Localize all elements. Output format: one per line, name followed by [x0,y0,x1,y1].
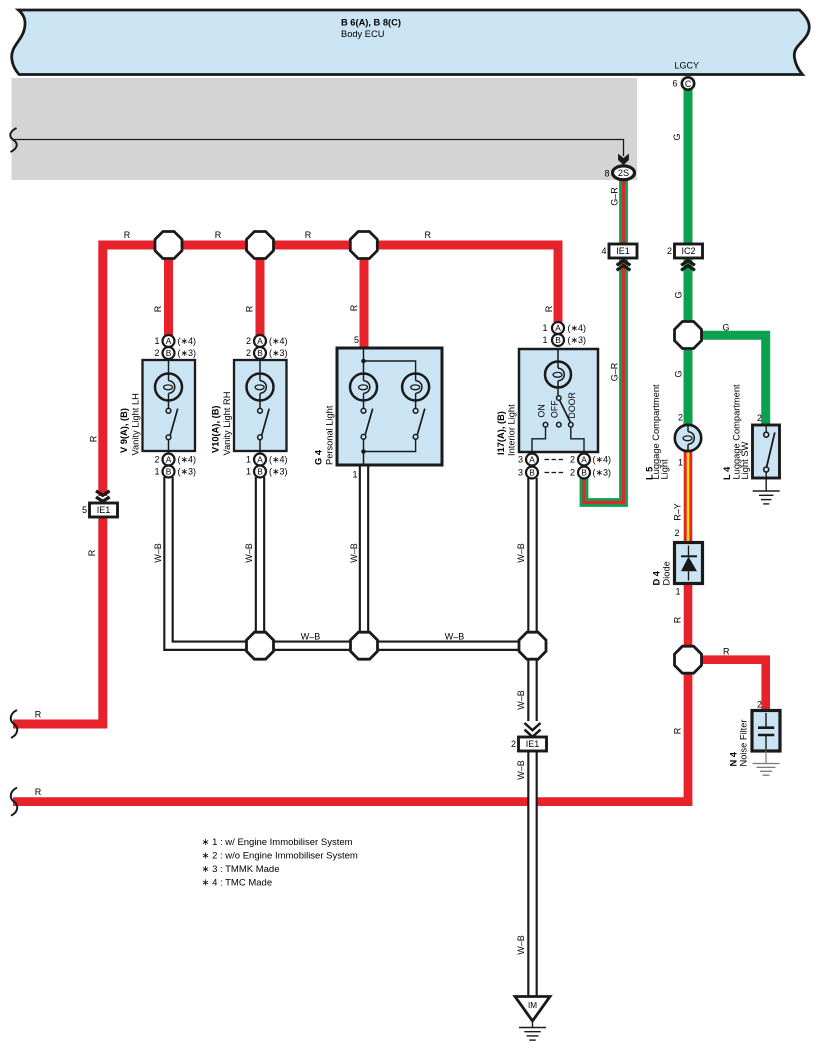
svg-text:Vanity Light RH: Vanity Light RH [222,392,232,456]
svg-text:OFF: OFF [549,400,559,418]
svg-text:2: 2 [757,700,762,710]
svg-text:Interior Light: Interior Light [507,404,517,456]
svg-text:R: R [215,230,222,240]
svg-text:R: R [89,435,99,442]
svg-text:2: 2 [511,739,516,749]
svg-text:Body ECU: Body ECU [341,29,384,39]
svg-text:W–B: W–B [349,543,359,563]
svg-text:(∗3): (∗3) [593,468,612,478]
svg-text:IE1: IE1 [97,505,111,515]
svg-text:(∗3): (∗3) [178,348,197,358]
svg-text:(∗4): (∗4) [269,455,288,465]
svg-text:R: R [673,616,683,623]
svg-text:1: 1 [678,457,683,467]
svg-text:4: 4 [601,246,606,256]
svg-text:1: 1 [154,467,159,477]
svg-text:2: 2 [154,348,159,358]
svg-text:A: A [166,336,172,346]
svg-text:G–R: G–R [610,362,620,381]
svg-text:1: 1 [246,455,251,465]
svg-text:2: 2 [570,468,575,478]
svg-text:1: 1 [675,587,680,597]
svg-text:(∗4): (∗4) [178,336,197,346]
svg-text:W–B: W–B [244,543,254,563]
svg-text:R: R [245,305,255,312]
svg-text:2: 2 [570,455,575,465]
svg-text:1: 1 [246,467,251,477]
svg-text:R: R [35,710,42,720]
svg-text:(∗4): (∗4) [269,336,288,346]
svg-text:R: R [544,305,554,312]
svg-text:DOOR: DOOR [567,392,577,418]
svg-text:Diode: Diode [662,561,672,585]
svg-text:3: 3 [518,468,523,478]
svg-text:R–Y: R–Y [673,503,683,521]
svg-text:L 4: L 4 [722,466,732,480]
svg-text:B: B [166,467,172,477]
svg-text:(∗3): (∗3) [269,467,288,477]
svg-text:B: B [257,467,263,477]
svg-text:W–B: W–B [516,690,526,710]
svg-text:Noise Filter: Noise Filter [739,719,749,766]
svg-text:V10(A), (B): V10(A), (B) [211,405,221,453]
svg-text:2: 2 [757,413,762,423]
svg-text:A: A [257,455,263,465]
svg-text:1: 1 [542,323,547,333]
svg-text:N 4: N 4 [729,751,739,766]
svg-text:R: R [305,230,312,240]
svg-text:R: R [35,787,42,797]
svg-text:Light SW: Light SW [740,442,750,480]
svg-text:1: 1 [352,470,357,480]
svg-text:R: R [87,549,97,556]
svg-text:W–B: W–B [516,760,526,780]
svg-text:R: R [153,305,163,312]
svg-text:A: A [581,455,587,465]
svg-text:G: G [673,370,683,377]
svg-text:∗ 1 : w/ Engine Immobiliser Sy: ∗ 1 : w/ Engine Immobiliser System [202,837,353,848]
svg-text:A: A [166,455,172,465]
svg-text:V 9(A), (B): V 9(A), (B) [119,408,129,453]
svg-text:2S: 2S [618,168,629,178]
svg-text:8: 8 [604,168,609,178]
svg-text:∗ 3 : TMMK Made: ∗ 3 : TMMK Made [202,864,280,875]
svg-text:IE1: IE1 [526,739,540,749]
svg-text:R: R [723,646,730,656]
svg-text:G–R: G–R [609,187,619,206]
svg-text:I17(A), (B): I17(A), (B) [496,411,506,455]
svg-text:(∗4): (∗4) [568,323,587,333]
svg-text:(∗4): (∗4) [178,455,197,465]
svg-text:G: G [673,291,683,298]
svg-text:3: 3 [518,455,523,465]
svg-text:G 4: G 4 [314,449,324,465]
svg-text:2: 2 [246,336,251,346]
svg-text:Light: Light [660,459,670,480]
svg-text:1: 1 [154,336,159,346]
svg-text:B 6(A), B 8(C): B 6(A), B 8(C) [341,18,401,28]
svg-text:IE1: IE1 [616,246,630,256]
svg-text:1: 1 [542,335,547,345]
svg-text:∗ 4 : TMC Made: ∗ 4 : TMC Made [202,878,273,889]
svg-text:(∗4): (∗4) [593,455,612,465]
svg-text:2: 2 [678,413,683,423]
svg-text:(∗3): (∗3) [178,467,197,477]
svg-text:2: 2 [667,246,672,256]
svg-text:W–B: W–B [516,543,526,563]
svg-text:A: A [257,336,263,346]
svg-text:R: R [349,304,359,311]
svg-text:IC2: IC2 [681,246,695,256]
svg-text:2: 2 [674,528,679,538]
svg-text:ON: ON [537,404,547,417]
svg-text:W–B: W–B [445,632,465,642]
svg-text:G: G [672,133,682,140]
svg-text:G: G [722,323,729,333]
svg-text:B: B [529,468,535,478]
svg-text:Personal Light: Personal Light [325,405,335,465]
svg-text:2: 2 [246,348,251,358]
svg-text:Vanity Light LH: Vanity Light LH [131,393,141,455]
svg-text:B: B [166,348,172,358]
svg-text:R: R [673,727,683,734]
svg-text:B: B [555,335,561,345]
svg-text:C: C [685,79,692,89]
svg-text:5: 5 [82,505,87,515]
svg-text:(∗3): (∗3) [269,348,288,358]
svg-text:LGCY: LGCY [675,61,700,71]
svg-text:R: R [124,230,131,240]
svg-text:A: A [555,323,561,333]
svg-text:W–B: W–B [516,935,526,955]
svg-text:B: B [257,348,263,358]
svg-text:5: 5 [354,335,359,345]
svg-text:R: R [424,230,431,240]
svg-text:2: 2 [154,455,159,465]
svg-text:D 4: D 4 [652,570,662,585]
svg-text:(∗3): (∗3) [568,335,587,345]
svg-text:6: 6 [672,79,677,89]
svg-text:W–B: W–B [301,632,321,642]
svg-text:B: B [581,468,587,478]
svg-text:W–B: W–B [153,543,163,563]
svg-text:IM: IM [528,1001,537,1010]
svg-text:A: A [529,455,535,465]
svg-text:∗ 2 : w/o Engine Immobiliser S: ∗ 2 : w/o Engine Immobiliser System [202,851,358,862]
